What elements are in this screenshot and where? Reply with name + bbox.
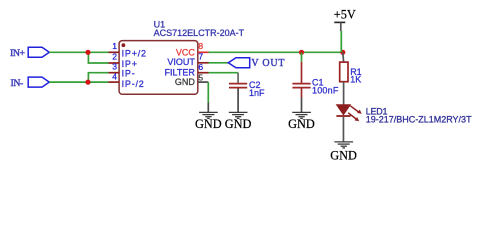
pin 3 stub [109, 72, 120, 74]
ground under LED1 [334, 142, 353, 148]
LED LED1 [336, 105, 361, 142]
svg-text:IN-: IN- [11, 78, 24, 89]
svg-text:GND: GND [195, 117, 222, 131]
wire VCC rail pin 8 to +5V [209, 51, 343, 53]
wire junction branch to pin 3 [88, 73, 108, 82]
wire pin 5 down to ground [207, 82, 209, 102]
svg-text:GND: GND [288, 117, 315, 131]
capacitor C2 [229, 73, 247, 88]
wire pin 6 to C2 [209, 72, 239, 74]
svg-text:V OUT: V OUT [251, 58, 285, 69]
wire +5V down to junction [340, 31, 342, 52]
svg-text:3: 3 [112, 61, 117, 71]
capacitor C1 [292, 52, 310, 97]
svg-text:IP-: IP- [122, 69, 136, 79]
svg-text:7: 7 [198, 51, 203, 61]
wire IN+ to pin 1 [49, 51, 108, 53]
resistor R1 [340, 52, 348, 105]
svg-text:1K: 1K [350, 75, 361, 85]
power +5V [334, 8, 356, 32]
svg-text:19-217/BHC-ZL1M2RY/3T: 19-217/BHC-ZL1M2RY/3T [366, 115, 472, 125]
svg-text:FILTER: FILTER [165, 67, 196, 77]
ground under pin 5 [199, 103, 218, 119]
pin 6 stub [198, 72, 209, 74]
svg-text:2: 2 [112, 51, 117, 61]
svg-text:4: 4 [112, 72, 117, 82]
wire pin 7 to V OUT [209, 62, 229, 64]
connector IN+ [10, 47, 49, 59]
pin 1 stub [109, 51, 120, 53]
svg-text:GND: GND [225, 117, 252, 131]
svg-text:1nF: 1nF [249, 88, 265, 98]
IC U1 ACS712 current sensor body [119, 41, 198, 95]
svg-text:IP+/2: IP+/2 [122, 49, 147, 59]
pin 7 stub [198, 62, 209, 64]
node junction dot IN- [85, 80, 90, 85]
svg-text:100nF: 100nF [312, 86, 339, 96]
svg-text:GND: GND [175, 77, 196, 87]
svg-text:IP+: IP+ [122, 59, 138, 69]
svg-text:6: 6 [198, 62, 203, 72]
pin 5 stub [198, 81, 209, 83]
svg-text:1: 1 [112, 41, 117, 51]
wire IN- to pin 4 [49, 81, 108, 83]
node junction dot IN+ [85, 50, 90, 55]
node junction dot C1 tap [299, 50, 304, 55]
pin 2 stub [109, 62, 120, 64]
svg-text:5: 5 [198, 73, 203, 83]
svg-text:VIOUT: VIOUT [167, 57, 195, 67]
node junction dot +5V / R1 tap [340, 50, 345, 55]
wire junction branch to pin 2 [88, 52, 108, 63]
connector V OUT [228, 58, 285, 69]
pin 4 stub [109, 81, 120, 83]
svg-text:8: 8 [198, 41, 203, 51]
svg-text:IP-/2: IP-/2 [122, 79, 145, 89]
ground under C2 [229, 88, 248, 118]
svg-text:IN+: IN+ [10, 48, 26, 59]
svg-text:ACS712ELCTR-20A-T: ACS712ELCTR-20A-T [154, 28, 245, 38]
svg-text:+5V: +5V [334, 8, 356, 22]
ground under C1 [292, 98, 311, 119]
pin 8 stub [198, 51, 209, 53]
connector IN- [11, 77, 50, 89]
svg-text:GND: GND [330, 148, 357, 162]
